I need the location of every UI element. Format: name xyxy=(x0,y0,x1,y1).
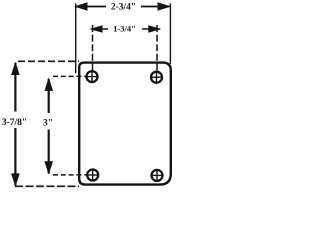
dashed connector plate bottom edge to 3-7/8 xyxy=(15,185,79,187)
svg-text:1-3/4": 1-3/4" xyxy=(113,24,136,34)
dimension 3 up arrowhead xyxy=(44,77,53,91)
dimension 1-3/4 line xyxy=(91,28,160,30)
extension line right (2-3/4) xyxy=(169,4,171,65)
hole bottom-left xyxy=(87,170,98,181)
dimension 2-3/4 line xyxy=(76,6,170,8)
dimension 1-3/4 left arrowhead xyxy=(90,25,103,33)
dimension 3-7/8 down arrowhead xyxy=(11,173,20,187)
extension line left (2-3/4) xyxy=(75,4,77,74)
hole top-left xyxy=(87,71,98,82)
hole top-right xyxy=(151,72,162,83)
plate outline xyxy=(79,63,171,185)
svg-text:3-7/8": 3-7/8" xyxy=(2,118,27,128)
dimension 3-7/8 up arrowhead xyxy=(11,62,20,76)
dashed connector plate top edge to 3-7/8 xyxy=(18,60,79,62)
hole bottom-right xyxy=(152,170,163,181)
dimension 3 down arrowhead xyxy=(44,161,53,175)
extension dashed line right hole (1-3/4) xyxy=(156,25,158,71)
dashed connector top hole centre to 3 xyxy=(53,75,87,77)
svg-text:2-3/4": 2-3/4" xyxy=(111,3,136,13)
dimension 1-3/4 right arrowhead xyxy=(148,25,161,33)
extension dashed line left hole (1-3/4) xyxy=(92,25,94,70)
dimension 2-3/4 right arrowhead xyxy=(158,2,172,11)
dimension 3-7/8 line xyxy=(14,63,16,186)
dashed connector bottom hole centre to 3 xyxy=(53,174,87,176)
dimension 2-3/4 left arrowhead xyxy=(74,2,88,11)
dimension 3 line xyxy=(48,79,50,174)
svg-text:3": 3" xyxy=(43,119,53,129)
